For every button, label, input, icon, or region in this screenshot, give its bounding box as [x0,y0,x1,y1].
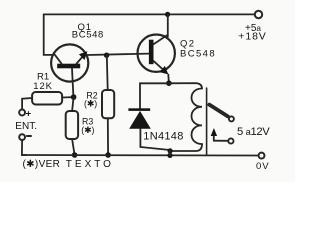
diode D1 1N4148 triangle [129,111,151,129]
switch contact upper [229,116,234,121]
svg-text:5 a12V: 5 a12V [237,126,270,138]
wire: R1 right lead to base node [62,96,74,98]
node: top rail junction to Q2 collector [165,12,170,17]
svg-text:ENT.: ENT. [15,121,37,132]
svg-text:BC548: BC548 [72,30,104,41]
label + sign [26,108,32,119]
wire: left rail from top to Q1 collector [44,14,52,55]
node: R2 to bottom rail [105,152,111,158]
wire: top supply rail [44,13,255,15]
svg-text:0V: 0V [256,161,270,172]
wire: lower contact lead [214,140,228,142]
switch actuation arrow [211,128,217,141]
node: R3 to bottom rail [72,152,78,158]
power terminal +5 a +18V [255,11,262,18]
svg-text:(✱): (✱) [81,125,94,135]
node: Q1 base node [71,94,77,100]
wire: ENT - down to bottom rail [22,141,26,155]
svg-text:+18V: +18V [238,31,266,43]
relay coil bottom lead [170,144,202,151]
node: junction emitter wire / R2 [104,53,109,58]
wire: R3 top lead [72,97,74,111]
resistor R2 [102,90,114,118]
label R3 (*) [81,116,94,134]
terminal ENT - [19,134,25,140]
label R1 12K [33,71,53,92]
transistor Q1 [51,44,88,96]
label ENT. [15,121,37,132]
resistor R3 [66,111,78,139]
switch lever [209,105,228,117]
wire: emitter node left to diode cathode [140,83,169,108]
svg-text:TEXTO: TEXTO [66,159,114,170]
switch contact lower [228,138,233,143]
label - sign [27,135,31,137]
svg-text:1N4148: 1N4148 [143,130,183,142]
wire: Q1 emitter to Q2 base [88,54,149,55]
svg-text:(✱)VER: (✱)VER [23,159,61,170]
wire: diode anode lead down and right to rail junction [140,129,168,150]
label +5a / +18V [238,23,266,42]
terminal 0V [259,153,265,159]
label 5 a12V [237,126,270,138]
relay coil K1 bumps [192,89,203,145]
transistor Q2 [138,14,175,83]
wire: R3 bottom lead [72,139,75,155]
label Q2 BC548 [180,38,216,59]
label Q1 BC548 [72,22,104,41]
label 1N4148 [143,130,183,142]
label 0V [256,161,270,172]
wire: bottom rail [22,154,258,157]
node: Q2 emitter node [166,80,172,86]
relay coil top lead [169,83,202,88]
svg-text:(✱): (✱) [84,99,97,109]
resistor R1 [32,92,62,105]
svg-text:BC548: BC548 [180,48,216,59]
svg-text:+: + [26,108,32,119]
label R2 (*) [84,90,98,108]
wire: R2 bottom lead [107,118,109,155]
wire: R2 top lead [106,55,109,90]
diode D1 1N4148 cathode bar [128,108,150,111]
terminal ENT + [19,110,25,116]
wire: R1 left lead to + terminal [22,98,32,109]
svg-text:12K: 12K [33,81,53,92]
node: coil to rail double junction [167,148,172,158]
label (*)VER TEXTO [23,159,114,170]
relay armature line [206,88,208,155]
